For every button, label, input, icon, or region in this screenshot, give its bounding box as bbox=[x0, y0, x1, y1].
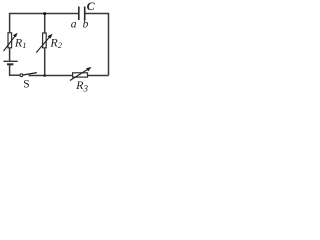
wire top-right horizontal segment (capacitor plate b to top-right corner) bbox=[85, 13, 109, 15]
wire left vertical upper (R1 to top-left corner) bbox=[9, 13, 11, 33]
wire bottom-left segment (battery to switch circle) bbox=[10, 74, 20, 76]
wire left vertical middle (battery to R1) bbox=[9, 48, 11, 61]
wire right vertical segment bbox=[108, 13, 110, 76]
svg-text:b: b bbox=[83, 19, 89, 31]
wire R2 branch upper (top wire to R2 box) bbox=[44, 14, 46, 34]
resistor R1 arrow bbox=[4, 33, 18, 51]
junction dot top (R2 branch to top wire) bbox=[43, 12, 46, 15]
switch S circle contact bbox=[20, 74, 23, 77]
battery cell (short thick negative plate) bbox=[7, 63, 13, 65]
capacitor C plate b (right) bbox=[84, 7, 86, 21]
battery cell (long positive plate) bbox=[3, 60, 17, 62]
resistor R1 box bbox=[8, 33, 12, 48]
wire R2 branch lower (R2 box to bottom wire) bbox=[44, 48, 46, 76]
switch S blade bbox=[23, 73, 37, 75]
svg-text:C: C bbox=[87, 0, 96, 13]
resistor R3 arrow bbox=[70, 67, 92, 81]
wire left vertical lower (bottom-left corner up to battery) bbox=[9, 65, 11, 76]
wire top-left horizontal segment (corner to capacitor plate a) bbox=[10, 13, 79, 15]
svg-text:a: a bbox=[71, 19, 77, 31]
wire bottom-right segment (corner to R3) bbox=[88, 75, 109, 77]
svg-text:S: S bbox=[23, 79, 29, 91]
capacitor C plate a (left) bbox=[78, 7, 80, 21]
resistor R2 arrow bbox=[36, 34, 52, 53]
wire bottom-middle segment (R3 to junction and switch contact) bbox=[29, 75, 73, 77]
junction dot bottom (R2 branch to bottom wire) bbox=[43, 74, 46, 77]
resistor R2 box bbox=[43, 33, 47, 48]
resistor R3 box bbox=[73, 73, 88, 77]
